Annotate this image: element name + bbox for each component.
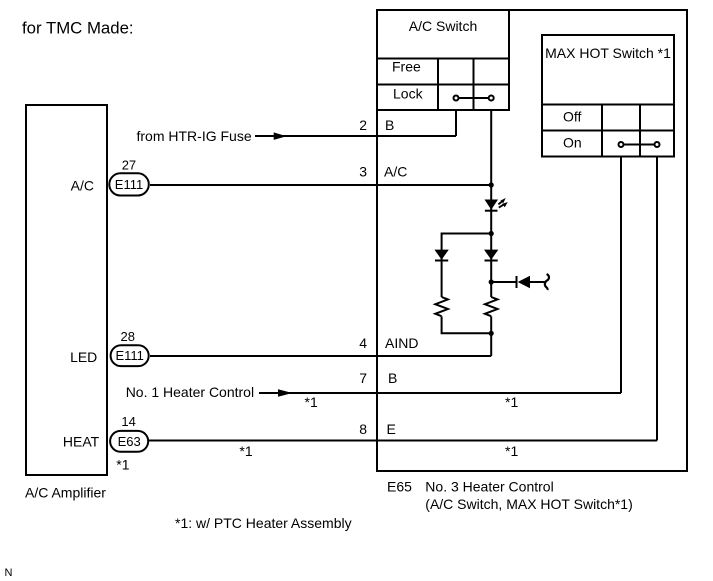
svg-text:3: 3 [359,164,367,180]
svg-text:No. 1 Heater Control: No. 1 Heater Control [126,384,254,400]
svg-text:LED: LED [70,349,97,365]
svg-text:*1: w/ PTC Heater Assembly: *1: w/ PTC Heater Assembly [175,515,352,531]
svg-text:E111: E111 [115,177,143,192]
svg-text:A/C: A/C [71,178,94,194]
svg-text:A/C Switch: A/C Switch [409,18,477,34]
svg-text:14: 14 [121,414,135,429]
svg-text:MAX HOT Switch *1: MAX HOT Switch *1 [545,45,671,61]
svg-text:2: 2 [359,117,367,133]
svg-text:*1: *1 [505,443,518,459]
svg-text:28: 28 [121,329,135,344]
svg-text:AIND: AIND [385,335,418,351]
svg-text:*1: *1 [239,443,252,459]
svg-text:E65: E65 [387,479,412,495]
svg-text:No. 3 Heater Control: No. 3 Heater Control [425,479,553,495]
svg-text:On: On [563,135,582,151]
svg-text:7: 7 [359,370,367,386]
svg-text:HEAT: HEAT [63,434,100,450]
svg-text:(A/C Switch, MAX HOT Switch*1): (A/C Switch, MAX HOT Switch*1) [425,496,632,512]
svg-text:Free: Free [392,59,421,75]
svg-text:for TMC Made:: for TMC Made: [22,18,134,37]
svg-text:4: 4 [359,335,367,351]
svg-text:*1: *1 [116,457,129,473]
svg-text:E111: E111 [115,348,143,363]
svg-text:A/C: A/C [384,164,407,180]
svg-text:B: B [385,117,394,133]
svg-text:Lock: Lock [393,86,424,102]
svg-text:from HTR-IG Fuse: from HTR-IG Fuse [137,128,252,144]
svg-text:*1: *1 [305,394,318,410]
svg-text:27: 27 [122,158,136,173]
svg-text:8: 8 [359,421,367,437]
svg-text:Off: Off [563,109,582,125]
svg-text:E: E [387,421,396,437]
svg-text:E63: E63 [118,434,141,449]
svg-text:A/C Amplifier: A/C Amplifier [25,485,106,501]
svg-text:N: N [5,567,13,579]
svg-text:B: B [388,370,397,386]
svg-text:*1: *1 [505,394,518,410]
